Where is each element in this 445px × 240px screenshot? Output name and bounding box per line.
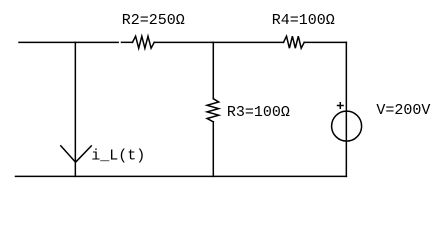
wire top-right segment: [304, 41, 346, 43]
svg-text:i_L(t): i_L(t): [91, 148, 145, 165]
voltage source V1 circle: [332, 111, 362, 141]
wire top middle segment: [154, 41, 283, 43]
resistor R2: [133, 36, 155, 48]
svg-text:R3=100Ω: R3=100Ω: [227, 104, 290, 121]
wire right vertical: [345, 42, 347, 176]
voltage source plus sign: [337, 102, 344, 109]
svg-text:R4=100Ω: R4=100Ω: [272, 12, 335, 29]
wire top segment to R2: [122, 41, 133, 43]
svg-text:V=200V: V=200V: [376, 102, 430, 119]
svg-text:R2=250Ω: R2=250Ω: [122, 12, 185, 29]
wire bottom: [16, 175, 347, 177]
wire top-left segment: [19, 41, 118, 43]
resistor R4: [284, 36, 305, 48]
wire middle vertical lower: [212, 122, 214, 177]
resistor R3: [207, 99, 219, 122]
current arrow i_L: [60, 145, 92, 162]
wire middle vertical upper: [212, 42, 214, 98]
wire left vertical: [74, 42, 76, 176]
